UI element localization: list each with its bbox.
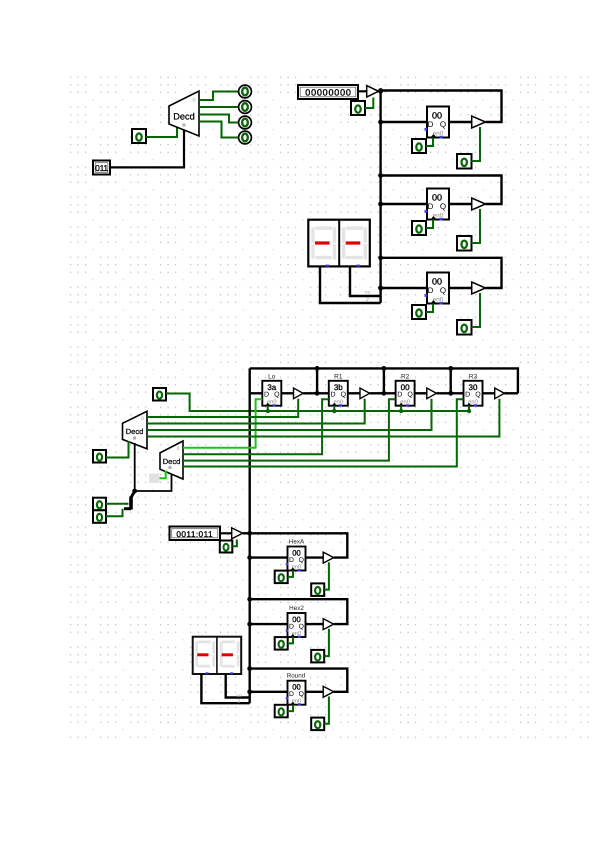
input pin U2 enable (value 0) [93,450,106,463]
tri-state buffer REG2-B [472,198,486,210]
wire REG3 bus loop [381,258,502,288]
input pin I2 (select, value 011) [93,161,110,175]
svg-text:00000000: 00000000 [305,88,351,98]
wire RR3 buffer out to bus node [436,392,450,394]
wire U1 out1 [199,106,239,108]
wire BR2 buffer control [324,629,329,656]
wire RR2 D input [317,392,329,394]
svg-text:D: D [289,691,294,698]
svg-text:3a: 3a [267,383,276,392]
tri-state buffer RR1-B [294,388,304,399]
wire I4 to buffer B4 [220,532,232,534]
input pin REG2 clock (value 0) [412,221,426,235]
input pin CLK (value 0) [153,388,166,401]
output pin LED0 [239,85,252,98]
wire RR2 read-enable from decoder U2 [147,399,365,424]
input pin P0 (buffer B0 control) [351,101,365,115]
wire REG3 Q output [449,287,472,289]
wire RR3 Q to buffer [415,392,427,394]
node select junction [132,489,137,494]
wire BR1 bus loop [250,533,348,557]
input pin BR3 clock (value 0) [275,705,288,718]
tri-state buffer RR3-B [427,388,437,399]
svg-text:D: D [289,623,294,630]
wire BR2 bus loop [250,599,348,624]
splitter SP1 [124,491,135,510]
wire REG1 buffer control [472,127,481,161]
wire U2 select [134,443,136,491]
decoder U3 (write-select) [160,441,183,479]
wire REG1 D input [381,121,427,123]
register RR1 (Lo, value 3a) [262,374,281,407]
wire main bus vertical [248,368,250,703]
svg-text:D: D [428,286,434,295]
wire U2 enable [106,441,129,458]
svg-text:30: 30 [469,383,478,392]
wire U3 select [135,474,172,491]
wire SEL1 to splitter [106,509,123,517]
wire REG2 D input [381,203,427,205]
svg-text:Q: Q [440,120,446,129]
wire BR3 D input [250,691,288,693]
output pin LED1 [239,101,252,114]
svg-text:D: D [264,392,269,399]
wire DS2 left input [201,674,249,703]
wire SEL0 to splitter [106,503,129,505]
wire P4 to B4 control [232,540,237,547]
svg-text:00: 00 [432,277,442,287]
svg-text:2: 2 [366,297,369,303]
wire RR4 buffer out to bus node [504,392,518,394]
input pin BR2 clock (value 0) [275,637,288,650]
input pin REG3 read-enable (value 0) [457,320,472,335]
tri-state buffer REG3-B [472,282,486,294]
wire RR2 buffer out to bus node [370,392,384,394]
svg-text:3b: 3b [334,383,343,392]
wire BR2 D input [250,623,288,625]
wire I2 to decoder select [110,130,184,167]
input pin REG1 read-enable (value 0) [457,154,472,169]
wire register-row top bus [250,368,518,393]
wire BR3 Q to buffer [306,691,324,693]
node REG1 bus tap [378,88,383,93]
svg-text:0: 0 [177,446,180,452]
register REG3 (value 00) [425,273,450,305]
wire BR3 buffer control [324,697,329,724]
svg-text:R3: R3 [469,374,478,381]
svg-text:Decd: Decd [173,112,194,122]
svg-text:D: D [465,392,470,399]
wire RR3 read-enable from decoder U2 [147,399,432,430]
register RR4 (R3, value 30) [464,374,483,407]
wire BR1 buffer control [324,562,329,589]
svg-text:Q: Q [407,392,413,399]
wire REG3 clock [426,304,433,313]
input pin I3 (value 00000000) [298,85,358,99]
wire RR2 Q to buffer [348,392,360,394]
tri-state buffer RR2-B [360,388,370,399]
svg-text:Hex2: Hex2 [289,605,304,612]
svg-text:Decd: Decd [126,427,144,436]
tri-state buffer REG1-B [472,116,486,128]
tri-state buffer RR4-B [495,388,505,399]
svg-text:Lo: Lo [268,374,276,381]
node REG2 bus tap [378,173,383,178]
7-segment display DS2 (showing -) [193,637,242,674]
wire DS1 left input [320,266,381,303]
wire B4 out to bus [243,532,250,534]
wire RR4 read-enable from decoder U2 [147,399,499,437]
node REG3 bus tap [378,255,383,260]
wire BR1 Q to buffer [306,556,324,558]
svg-text:D: D [330,392,335,399]
tri-state buffer B4 [232,528,243,539]
wire CLK distribution [166,394,469,412]
svg-text:HexA: HexA [289,538,305,545]
wire REG2 bus loop [381,176,502,205]
wire RR3 clock stub [400,406,402,411]
svg-text:2: 2 [238,699,241,705]
wire RR1 clock stub [267,406,269,411]
wire U1 out3 [199,122,239,138]
wire DS2 right input [226,674,250,698]
input pin I1 (enable, value 0) [132,129,146,143]
node bus-top [378,89,383,94]
wire REG3 buffer control [472,293,481,327]
svg-text:Q: Q [299,691,304,698]
svg-text:D: D [428,120,434,129]
tri-state buffer B0 [367,86,379,97]
wire bus node drop 2 [383,368,385,393]
input pin BR1 clock (value 0) [275,571,288,584]
wire RR2 write-enable from decoder U3 [183,399,329,454]
svg-text:00: 00 [401,383,410,392]
input pin REG3 clock (value 0) [412,305,426,319]
wire RR1 D input [250,392,263,394]
output pin LED3 [239,131,252,144]
register BR1 (HexA, value 00) [286,538,306,571]
svg-text:Round: Round [287,673,306,680]
svg-text:D: D [289,557,294,564]
wire RR4 D input [451,392,464,394]
wire BR2 clock [288,637,293,643]
decoder U1 [169,91,199,136]
wire BR3 bus loop [250,669,348,692]
decoder U2 (read-select) [123,411,148,449]
wire BR1 D input [250,556,288,558]
svg-text:0011:011: 0011:011 [176,529,213,539]
svg-text:Q: Q [440,202,446,211]
svg-text:0: 0 [141,416,144,422]
wire RR4 write-enable from decoder U3 [183,399,464,466]
svg-text:011: 011 [95,163,108,173]
svg-text:Q: Q [341,392,347,399]
register BR3 (Round, value 00) [286,673,306,706]
svg-text:Q: Q [475,392,481,399]
tri-state buffer BR2-B [323,619,334,630]
wire bus vertical [379,91,381,303]
input pin REG2 read-enable (value 0) [457,236,472,251]
wire RR1 write-enable from decoder U3 [183,399,262,448]
wire DS1 right input [350,266,381,296]
register BR2 (Hex2, value 00) [286,605,306,638]
wire RR1 Q to buffer [281,392,293,394]
svg-text:Decd: Decd [163,457,181,466]
svg-text:R1: R1 [334,374,343,381]
svg-text:0: 0 [192,98,195,104]
input pin BR3 read-enable (value 0) [311,718,324,731]
wire RR4 clock stub [468,406,470,411]
svg-text:D: D [428,202,434,211]
register RR3 (R2, value 00) [396,374,415,407]
input pin BR1 read-enable (value 0) [311,583,324,596]
svg-text:co: co [365,290,371,296]
wire U1 out0 [199,92,239,101]
wire RR1 buffer out to bus node [303,392,317,394]
wire REG1 Q output [449,121,472,123]
constant block (U3 enable source) [149,474,160,484]
wire REG1 clock [426,138,433,147]
wire REG2 Q output [449,203,472,205]
wire RR3 write-enable from decoder U3 [183,399,396,460]
output pin LED2 [239,116,252,129]
svg-text:Q: Q [299,623,304,630]
svg-text:Q: Q [299,557,304,564]
wire bus node drop 1 [316,368,318,393]
svg-text:00: 00 [432,111,442,121]
tri-state buffer BR1-B [323,552,334,563]
input pin REG1 clock (value 0) [412,139,426,153]
input pin I4 (value 0011:011) [170,527,221,541]
tri-state buffer BR3-B [323,686,334,697]
input pin BR2 read-enable (value 0) [311,650,324,663]
input pin SEL0 (value 0) [93,498,106,511]
register REG2 (value 00) [425,189,450,221]
wire REG2 clock [426,220,433,229]
svg-text:00: 00 [432,193,442,203]
svg-text:Q: Q [440,286,446,295]
wire REG2 buffer control [472,209,481,243]
svg-text:R2: R2 [401,374,410,381]
wire REG3 D input [381,287,427,289]
wire RR4 Q to buffer [483,392,495,394]
node bus display tap [378,286,383,291]
svg-text:D: D [397,392,402,399]
wire BR2 Q to buffer [306,623,324,625]
input pin P4 (B4 control, value 0) [220,541,233,553]
wire REG1 bus loop [381,91,502,123]
wire BR1 clock [288,571,293,577]
svg-text:Q: Q [274,392,280,399]
7-segment display DS1 (showing -) [308,220,370,267]
wire U1 out2 [199,115,239,123]
wire BR3 clock [288,705,293,711]
wire I3 to buffer B0 [358,90,367,92]
input pin SEL1 (value 0) [93,510,106,523]
register REG1 (value 00) [425,107,450,139]
wire I1 to decoder enable [146,127,177,137]
wire U3 enable (high) [160,471,166,479]
wire RR3 D input [384,392,396,394]
wire RR2 clock stub [333,406,335,411]
wire P0 to B0 control [365,98,373,109]
register RR2 (R1, value 3b) [329,374,348,407]
wire RR1 read-enable from decoder U2 [147,399,298,417]
wire bus node drop 3 [450,368,452,393]
